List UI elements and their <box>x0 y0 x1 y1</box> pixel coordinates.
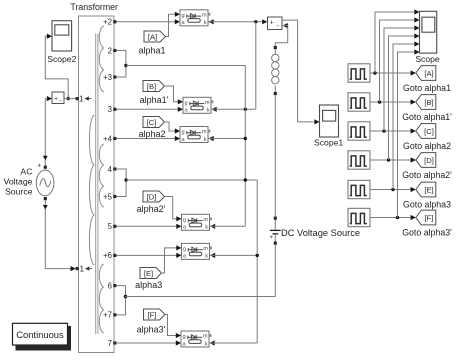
svg-text:m: m <box>203 246 208 252</box>
wire P1 output to Goto [A] <box>370 70 416 75</box>
svg-text:Goto alpha2': Goto alpha2' <box>402 170 452 180</box>
wire voltage measurement output to Scope2 <box>45 36 68 98</box>
svg-text:m: m <box>205 100 210 106</box>
svg-text:Goto alpha1': Goto alpha1' <box>402 112 452 122</box>
svg-text:k: k <box>207 108 210 114</box>
svg-text:[F]: [F] <box>148 311 157 320</box>
svg-text:m: m <box>202 13 207 19</box>
svg-text:[A]: [A] <box>148 33 157 42</box>
svg-text:+2: +2 <box>103 18 112 27</box>
wire T2 cathode run <box>212 107 256 112</box>
wire VM output to transformer port 1+ <box>64 98 76 100</box>
pulse generator P4 <box>348 151 370 169</box>
thyristor U5 (alpha3) <box>182 243 212 259</box>
DC voltage source B1 <box>269 217 360 297</box>
wire P5 branch to Scope input 5 <box>393 41 420 189</box>
svg-text:Goto alpha3: Goto alpha3 <box>403 200 451 210</box>
svg-text:6: 6 <box>108 281 112 290</box>
transformer core <box>96 34 98 335</box>
svg-text:[A]: [A] <box>424 69 433 78</box>
node bracket1 mid-tap <box>124 64 127 67</box>
wire port +2 to thyristor T1 anode <box>116 19 180 24</box>
transformer port 6 <box>108 281 117 290</box>
svg-text:[C]: [C] <box>424 127 434 136</box>
wire T4 cathode run <box>210 224 245 229</box>
svg-text:5: 5 <box>108 222 113 231</box>
wire T3 cathode run <box>209 136 246 141</box>
node P2 scope branch <box>378 100 381 103</box>
wire vertical V3 (T1k to T2k) <box>255 22 257 110</box>
svg-text:2: 2 <box>108 46 112 55</box>
svg-text:alpha2: alpha2 <box>138 129 165 139</box>
node V2 at T2k row <box>244 108 247 111</box>
svg-text:DC Voltage Source: DC Voltage Source <box>281 228 360 238</box>
wire T6 cathode run <box>210 340 258 345</box>
pulse generator P2 <box>348 93 370 111</box>
svg-text:g: g <box>183 334 186 340</box>
wire From [D] to T4 gate <box>165 197 182 222</box>
pulse generator P3 <box>348 122 370 140</box>
svg-text:1: 1 <box>79 94 83 103</box>
svg-text:g: g <box>182 130 185 136</box>
transformer winding 2-3 arcs <box>99 26 104 92</box>
transformer port +7 <box>103 311 116 320</box>
wire From [B] to T2 gate <box>165 86 184 104</box>
thyristor U3 (alpha2) <box>180 127 210 143</box>
transformer winding 4-5 arcs <box>99 144 104 207</box>
svg-text:g: g <box>183 247 186 253</box>
svg-text:k: k <box>204 20 207 26</box>
wire P3 branch to Scope input 3 <box>384 25 420 131</box>
wire AC source + to VM input <box>43 99 48 166</box>
svg-text:1: 1 <box>80 264 84 273</box>
Goto tag [D] <box>416 153 436 168</box>
scope Scope2 <box>47 21 77 64</box>
wire P3 output to Goto [C] <box>370 128 416 133</box>
svg-text:+6: +6 <box>103 251 112 260</box>
transformer port +3 <box>103 73 116 82</box>
wire T1 cathode to measurement sum <box>209 19 268 24</box>
svg-text:[D]: [D] <box>147 193 157 202</box>
node V2 at bracket2 tap row <box>244 178 247 181</box>
wire vertical V4 bus <box>256 180 258 343</box>
Continuous (powergui) block <box>13 323 72 350</box>
svg-text:[C]: [C] <box>147 118 157 127</box>
svg-text:g: g <box>183 217 186 223</box>
wire sum output to Scope1 <box>282 20 320 124</box>
svg-text:g: g <box>185 100 188 106</box>
From tag [A] <box>144 31 166 42</box>
svg-text:alpha1: alpha1 <box>138 46 165 56</box>
voltage measurement block U7 <box>47 92 64 105</box>
transformer port 5 <box>108 222 117 231</box>
wire P2 output to Goto [B] <box>370 99 416 104</box>
svg-text:g: g <box>182 13 185 19</box>
From tag [D] <box>143 191 165 202</box>
svg-text:+3: +3 <box>103 73 112 82</box>
wire port 7 to thyristor T6 anode <box>116 340 181 345</box>
svg-text:[F]: [F] <box>425 213 434 222</box>
node P6 scope branch <box>396 216 399 219</box>
node P1 scope branch <box>373 71 376 74</box>
svg-text:+7: +7 <box>103 311 112 320</box>
transformer port +4 <box>103 134 116 143</box>
node bracket3 mid-tap <box>124 295 127 298</box>
svg-text:alpha3': alpha3' <box>137 325 166 335</box>
wire port +6 to thyristor T5 anode <box>116 253 181 258</box>
wire P2 branch to Scope input 2 <box>380 17 420 102</box>
transformer port 7 <box>108 339 117 348</box>
svg-text:[D]: [D] <box>424 156 434 165</box>
transformer block <box>70 2 118 353</box>
transformer port 1- <box>76 264 92 273</box>
wire winding bracket 4/+5 <box>116 169 126 197</box>
wire From [E] to T5 gate <box>162 245 182 273</box>
svg-text:m: m <box>202 129 207 135</box>
svg-text:AC: AC <box>20 166 32 176</box>
wire sum minus input from inductor node <box>275 23 288 46</box>
svg-text:+4: +4 <box>103 134 113 143</box>
From tag [B] <box>143 81 165 92</box>
transformer port 2 <box>108 46 117 55</box>
svg-text:[E]: [E] <box>144 269 153 278</box>
From tag [C] <box>143 117 165 128</box>
Goto tag [B] <box>416 95 436 110</box>
svg-text:[B]: [B] <box>424 98 433 107</box>
node V2 at T3k row <box>244 137 247 140</box>
node P5 scope branch <box>391 188 394 191</box>
transformer port 4 <box>108 165 117 174</box>
transformer port +6 <box>103 251 116 260</box>
pulse generator P5 <box>348 180 370 198</box>
wire P6 branch to Scope input 6 <box>398 49 420 217</box>
AC voltage source V1 <box>4 162 54 200</box>
svg-text:Goto alpha3': Goto alpha3' <box>402 228 452 238</box>
svg-text:3: 3 <box>108 105 112 114</box>
svg-text:Transformer: Transformer <box>70 2 118 12</box>
svg-text:Scope1: Scope1 <box>314 138 343 148</box>
svg-text:+: + <box>269 234 273 241</box>
svg-text:+: + <box>37 162 41 169</box>
svg-text:4: 4 <box>108 165 113 174</box>
From tag [E] <box>140 268 162 279</box>
thyristor U4 (alpha2') <box>182 214 212 230</box>
inductor L1 <box>272 46 279 95</box>
svg-text:Source: Source <box>5 187 33 197</box>
wire winding bracket 2/+3 <box>116 51 126 78</box>
sum/voltage-measurement block U8 <box>268 17 283 30</box>
svg-text:Goto alpha2: Goto alpha2 <box>403 141 451 151</box>
wire port 5 to thyristor T4 anode <box>116 224 181 229</box>
svg-text:alpha2': alpha2' <box>137 204 166 214</box>
svg-text:Scope2: Scope2 <box>47 54 76 64</box>
node VM output branch <box>67 97 70 100</box>
svg-text:m: m <box>203 217 208 223</box>
Goto tag [E] <box>416 182 436 197</box>
svg-text:alpha3: alpha3 <box>135 280 162 290</box>
svg-text:+: + <box>54 95 58 102</box>
svg-text:Scope: Scope <box>415 54 440 64</box>
wire P6 output to Goto [F] <box>370 215 416 220</box>
svg-text:k: k <box>205 341 208 347</box>
svg-text:Voltage: Voltage <box>4 177 33 187</box>
svg-text:[E]: [E] <box>424 185 433 194</box>
transformer port 1+ <box>76 94 92 103</box>
transformer port 3 <box>108 105 117 114</box>
wire T5 cathode run <box>210 253 257 258</box>
wire P1 branch to Scope input 1 <box>375 9 420 73</box>
svg-text:k: k <box>205 225 208 231</box>
node V4 at T5k row <box>256 254 259 257</box>
transformer port +5 <box>103 192 116 201</box>
svg-text:k: k <box>204 137 207 143</box>
wire inductor to DC source <box>274 95 276 217</box>
node bracket2 mid-tap <box>124 178 127 181</box>
node T1k branch <box>254 20 257 23</box>
svg-text:alpha1': alpha1' <box>140 95 169 105</box>
wire AC source - to transformer port 1- <box>43 200 76 271</box>
pulse generator P6 <box>348 208 370 226</box>
thyristor U2 (alpha1') <box>183 97 213 113</box>
wire From [A] to T1 gate <box>166 12 181 37</box>
svg-text:+: + <box>269 20 273 27</box>
wire bracket1 tap to vertical bus V2 <box>126 65 245 67</box>
pulse generator P1 <box>348 64 370 82</box>
wire bracket2 tap to vertical bus V4 <box>126 179 257 181</box>
scope Scope (6-input) <box>415 11 440 64</box>
svg-text:k: k <box>205 254 208 260</box>
svg-text:+5: +5 <box>103 192 113 201</box>
wire P5 output to Goto [E] <box>370 187 416 192</box>
Goto tag [A] <box>416 66 436 81</box>
Goto tag [F] <box>416 210 436 225</box>
thyristor U1 (alpha1) <box>180 10 210 26</box>
wire From [C] to T3 gate <box>165 122 181 134</box>
wire vertical V2 bus <box>244 66 246 227</box>
node P3 scope branch <box>382 129 385 132</box>
wire port +4 to thyristor T3 anode <box>116 136 180 141</box>
svg-text:Continuous: Continuous <box>16 329 64 340</box>
From tag [F] <box>144 309 166 320</box>
transformer winding 1 (primary) arcs <box>89 115 94 265</box>
wire P4 branch to Scope input 4 <box>389 33 420 160</box>
svg-text:m: m <box>203 334 208 340</box>
wire port 3 to thyristor T2 anode <box>116 107 183 112</box>
Goto tag [C] <box>416 124 436 139</box>
wire winding bracket 6/+7 <box>116 286 125 315</box>
svg-text:7: 7 <box>108 339 112 348</box>
svg-text:Goto alpha1: Goto alpha1 <box>403 83 451 93</box>
wire bracket3 tap to DC source (neutral return) <box>126 296 276 298</box>
svg-text:[B]: [B] <box>147 82 156 91</box>
wire P4 output to Goto [D] <box>370 157 416 162</box>
wire From [F] to T6 gate <box>165 315 181 339</box>
thyristor U6 (alpha3') <box>181 331 211 347</box>
transformer winding 6-7 arcs <box>99 264 104 333</box>
node P4 scope branch <box>387 158 390 161</box>
scope Scope1 <box>314 105 343 148</box>
transformer port +2 <box>103 18 116 27</box>
